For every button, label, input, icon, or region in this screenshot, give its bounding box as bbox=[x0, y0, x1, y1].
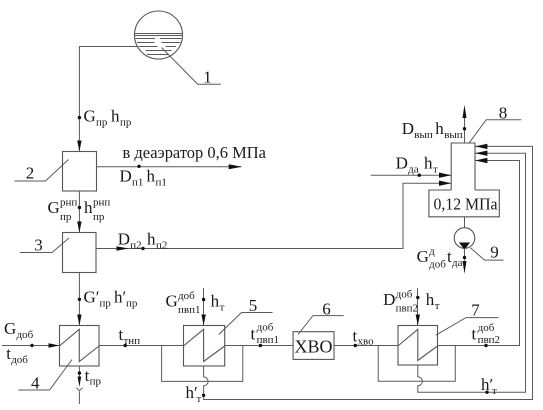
svg-text:4: 4 bbox=[31, 374, 40, 393]
node tpvp1 dot bbox=[259, 344, 262, 347]
label tpvp2-dob bbox=[472, 322, 501, 346]
label tpr bbox=[85, 366, 102, 388]
vent wire Dvyp bbox=[464, 118, 466, 144]
label h't left bbox=[186, 383, 202, 405]
svg-text:т: т bbox=[492, 385, 497, 397]
svg-text:9: 9 bbox=[490, 243, 499, 262]
svg-text:да: да bbox=[452, 257, 463, 269]
label ttnp bbox=[119, 325, 141, 347]
svg-text:G: G bbox=[48, 198, 60, 217]
wire heater5 to XBO bbox=[225, 345, 293, 347]
svg-text:рнп: рнп bbox=[60, 197, 77, 209]
wire tank to pump 9 bbox=[464, 217, 466, 228]
svg-text:доб: доб bbox=[429, 259, 446, 271]
pump 9 bbox=[454, 228, 475, 250]
svg-text:пвп2: пвп2 bbox=[396, 303, 418, 315]
svg-text:п2: п2 bbox=[130, 240, 141, 252]
label 7 leader bbox=[436, 301, 499, 336]
svg-text:t: t bbox=[251, 325, 256, 344]
node ttnp dot bbox=[124, 344, 127, 347]
node Gdob dot bbox=[30, 344, 33, 347]
label 9 leader bbox=[470, 243, 503, 262]
label Gпр hпр bbox=[84, 107, 132, 129]
svg-text:пр: пр bbox=[100, 298, 112, 310]
label Dп2 hп2 bbox=[118, 230, 168, 252]
node G'пр dot bbox=[78, 298, 81, 301]
label txvo bbox=[353, 327, 375, 348]
label Gdob-d tda bbox=[417, 246, 463, 271]
svg-text:G: G bbox=[417, 247, 429, 266]
svg-text:h: h bbox=[84, 198, 93, 217]
label 5 leader bbox=[219, 296, 273, 335]
arrow into expander 2 bbox=[77, 141, 81, 152]
svg-text:пвп2: пвп2 bbox=[478, 334, 500, 346]
svg-text:доб: доб bbox=[396, 289, 413, 301]
node Gpvp1 dot bbox=[202, 298, 205, 301]
svg-text:вып: вып bbox=[444, 129, 463, 141]
node Gпр dot bbox=[78, 116, 81, 119]
water treatment XBO 6 bbox=[293, 332, 334, 360]
label 1 leader bbox=[162, 48, 221, 87]
node Dп2 dot bbox=[141, 247, 144, 250]
heater 5 drain h't with jump bbox=[204, 146, 533, 399]
expander 2 (first stage) bbox=[63, 152, 97, 192]
svg-text:t: t bbox=[472, 325, 477, 344]
arrow into heater 7 top bbox=[416, 315, 420, 326]
arrow drain5 into head bbox=[475, 144, 487, 149]
svg-text:D: D bbox=[396, 154, 408, 173]
node Dpvp2 dot bbox=[416, 296, 419, 299]
label G'пр h'пр bbox=[84, 288, 138, 310]
heater 7 bypass loop bbox=[378, 346, 455, 382]
wire Gpvp1 ht into heater 5 bbox=[203, 288, 205, 326]
wire drum to expander 2 bbox=[79, 47, 137, 153]
svg-text:h: h bbox=[435, 119, 444, 138]
expander 3 (second stage) bbox=[63, 233, 97, 273]
arrow into heater 4 left bbox=[49, 343, 60, 347]
arrow drain7 into head bbox=[475, 151, 487, 156]
svg-text:п2: п2 bbox=[156, 240, 167, 252]
svg-text:доб: доб bbox=[11, 354, 28, 366]
label 4 leader bbox=[18, 360, 72, 393]
svg-text:доб: доб bbox=[17, 329, 34, 341]
svg-text:доб: доб bbox=[178, 290, 195, 302]
arrow into expander 3 bbox=[77, 222, 81, 233]
svg-text:h: h bbox=[147, 230, 156, 249]
svg-text:h: h bbox=[426, 290, 435, 309]
arrow Dп2 into head bbox=[439, 181, 451, 186]
svg-text:G: G bbox=[4, 319, 16, 338]
svg-text:6: 6 bbox=[322, 300, 331, 319]
wire heater4 to heater5 bbox=[99, 345, 184, 347]
svg-text:доб: доб bbox=[257, 322, 274, 334]
svg-text:пр: пр bbox=[90, 376, 102, 388]
node h't left dot bbox=[202, 394, 205, 397]
svg-text:пр: пр bbox=[93, 211, 105, 223]
svg-text:д: д bbox=[429, 246, 435, 258]
svg-text:пр: пр bbox=[126, 298, 138, 310]
svg-text:рнп: рнп bbox=[93, 197, 110, 209]
wire expander3 to heater 4 bbox=[78, 273, 80, 326]
node Dvyp dot bbox=[463, 127, 466, 130]
svg-text:тнп: тнп bbox=[124, 335, 141, 347]
svg-text:G: G bbox=[84, 107, 96, 126]
svg-text:в деаэратор 0,6 МПа: в деаэратор 0,6 МПа bbox=[123, 143, 267, 162]
svg-text:п1: п1 bbox=[156, 177, 167, 189]
svg-text:п1: п1 bbox=[132, 177, 143, 189]
svg-text:h′: h′ bbox=[114, 288, 126, 307]
label ht heater7 bbox=[426, 290, 440, 312]
label tpvp1-dob bbox=[251, 322, 280, 347]
arrow Dda into head bbox=[439, 173, 451, 178]
svg-text:пр: пр bbox=[96, 117, 108, 129]
svg-text:h: h bbox=[211, 292, 220, 311]
svg-text:т: т bbox=[220, 302, 225, 314]
label 8 leader bbox=[469, 104, 522, 144]
wire to deaerator 0,6 MPa bbox=[97, 166, 242, 168]
heater 7 drain h't with jump bbox=[418, 153, 526, 392]
heater 7 coil bbox=[399, 329, 438, 360]
label tdob bbox=[6, 344, 28, 366]
label Gdob bbox=[4, 319, 34, 341]
wire XBO to heater 7 bbox=[334, 345, 398, 347]
svg-text:т: т bbox=[433, 164, 438, 176]
node txvo dot bbox=[354, 344, 357, 347]
wire expander2 to expander3 bbox=[78, 191, 80, 233]
flow arrow Dп2 bbox=[117, 246, 129, 251]
svg-text:пвп1: пвп1 bbox=[178, 304, 200, 316]
svg-text:ХВО: ХВО bbox=[294, 337, 332, 357]
heater 4 coil bbox=[60, 329, 99, 361]
svg-text:3: 3 bbox=[34, 236, 43, 255]
wire tpvp2 to head bbox=[438, 161, 520, 346]
wire Dп2 to deaerator head bbox=[96, 183, 451, 248]
pump outlet Gdob-d tda bbox=[463, 248, 467, 273]
svg-text:пвп1: пвп1 bbox=[257, 334, 279, 346]
wire Gdob makeup inlet bbox=[2, 345, 60, 347]
svg-text:D: D bbox=[118, 230, 130, 249]
svg-text:8: 8 bbox=[499, 104, 508, 123]
svg-text:1: 1 bbox=[203, 68, 212, 87]
label Dda ht bbox=[396, 154, 438, 176]
svg-text:h: h bbox=[424, 154, 433, 173]
node Dп1 dot bbox=[137, 165, 140, 168]
arrow into heater 4 top bbox=[77, 315, 81, 326]
svg-text:пр: пр bbox=[60, 211, 72, 223]
heater 4 drain tpr bbox=[76, 366, 82, 404]
svg-text:доб: доб bbox=[478, 322, 495, 334]
arrow tpvp2 into head bbox=[475, 158, 487, 163]
svg-text:D: D bbox=[402, 119, 414, 138]
svg-text:G′: G′ bbox=[84, 288, 100, 307]
svg-text:т: т bbox=[435, 300, 440, 312]
svg-text:0,12 МПа: 0,12 МПа bbox=[434, 195, 498, 214]
node Dda dot bbox=[418, 174, 421, 177]
node h't right dot bbox=[485, 391, 488, 394]
drum 1 bbox=[135, 11, 183, 59]
label Gpvp1-dob bbox=[166, 290, 201, 316]
vent arrow up bbox=[463, 105, 467, 118]
label Dп1 hп1 bbox=[120, 167, 167, 189]
svg-text:пр: пр bbox=[120, 117, 132, 129]
node tpvp2 dot bbox=[484, 344, 487, 347]
svg-text:т: т bbox=[197, 393, 202, 405]
node Gрнп dot bbox=[78, 206, 81, 209]
wire Dda ht into head bbox=[371, 174, 452, 176]
deaerator head 8 bbox=[451, 143, 475, 190]
svg-text:2: 2 bbox=[26, 164, 35, 183]
svg-text:G: G bbox=[166, 292, 178, 311]
atmospheric tank 0,12 MPa bbox=[429, 190, 499, 217]
arrow into heater 5 top bbox=[201, 315, 205, 326]
wire Dpvp2 ht into heater 7 bbox=[417, 288, 419, 326]
label Dpvp2-dob bbox=[383, 289, 418, 315]
heater 4 (blowdown water cooler) bbox=[60, 326, 100, 367]
heater 5 (makeup heater 1) bbox=[184, 326, 225, 367]
svg-text:D: D bbox=[383, 290, 395, 309]
arrow end deaerator 0,6 bbox=[229, 164, 242, 169]
svg-text:h: h bbox=[147, 167, 156, 186]
svg-text:хво: хво bbox=[358, 336, 375, 348]
svg-text:вып: вып bbox=[414, 129, 433, 141]
heater 7 (makeup heater 2) bbox=[398, 326, 438, 366]
svg-text:да: да bbox=[408, 164, 419, 176]
svg-text:5: 5 bbox=[249, 296, 258, 315]
svg-text:D: D bbox=[120, 167, 132, 186]
label Gпр-рнп hпр-рнп bbox=[48, 197, 111, 224]
label 3 leader bbox=[20, 236, 69, 255]
label 2 leader bbox=[15, 160, 69, 183]
label 6 leader bbox=[298, 300, 344, 335]
svg-text:7: 7 bbox=[471, 301, 480, 320]
heater 5 coil bbox=[184, 329, 225, 361]
svg-text:h: h bbox=[111, 107, 120, 126]
label h't right bbox=[481, 375, 497, 397]
heater 5 bypass loop bbox=[162, 346, 243, 382]
label Dvyp hvyp bbox=[402, 119, 463, 141]
label ht heater5 bbox=[211, 292, 225, 314]
